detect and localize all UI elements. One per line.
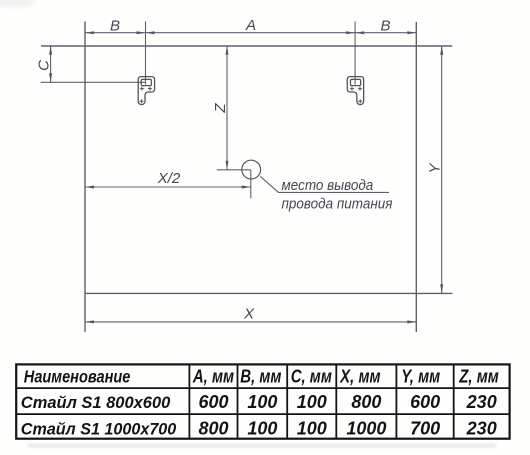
svg-text:100: 100 xyxy=(247,419,277,439)
svg-text:Z, мм: Z, мм xyxy=(458,366,498,387)
svg-text:провода питания: провода питания xyxy=(282,196,393,213)
wall bracket 1 xyxy=(138,77,154,105)
svg-text:1000: 1000 xyxy=(346,419,386,439)
mirror left edge xyxy=(84,21,86,332)
svg-text:A, мм: A, мм xyxy=(192,366,234,387)
svg-text:место вывода: место вывода xyxy=(282,177,374,194)
mirror bottom edge xyxy=(85,292,452,294)
svg-text:A: A xyxy=(245,17,256,34)
svg-text:C: C xyxy=(36,60,53,71)
svg-text:B: B xyxy=(110,18,120,35)
svg-text:800: 800 xyxy=(351,392,381,412)
bracket 2 centerline xyxy=(354,21,356,84)
svg-text:Наименование: Наименование xyxy=(24,367,131,387)
dimension line Z xyxy=(226,46,228,170)
arrows of dimension Y xyxy=(440,46,443,55)
bracket 2 screw marks xyxy=(350,87,362,104)
table outer border xyxy=(16,364,509,438)
svg-text:600: 600 xyxy=(410,392,440,412)
svg-text:B, мм: B, мм xyxy=(240,366,281,387)
hole centerline vertical xyxy=(250,170,252,199)
svg-text:Стайл S1 800x600: Стайл S1 800x600 xyxy=(21,393,171,412)
svg-text:X: X xyxy=(243,306,255,323)
dimension line C xyxy=(50,46,52,83)
arrows of dimension X xyxy=(85,320,94,323)
svg-text:Стайл S1 1000x700: Стайл S1 1000x700 xyxy=(21,419,177,438)
svg-text:Z: Z xyxy=(212,103,229,114)
dimension line Y xyxy=(441,46,443,294)
reference line C bottom xyxy=(41,81,146,83)
svg-text:C, мм: C, мм xyxy=(291,366,332,387)
dimension line X/2 xyxy=(85,186,251,188)
mirror top edge xyxy=(41,45,452,47)
arrows of dimension X/2 xyxy=(85,186,94,189)
power cord hole circle xyxy=(242,160,261,179)
arrows of dimension A xyxy=(146,31,155,34)
faint corner smudge xyxy=(0,0,36,7)
svg-text:X/2: X/2 xyxy=(157,170,181,187)
dimension line B A B xyxy=(85,32,416,34)
shadow under table xyxy=(28,444,496,448)
svg-text:100: 100 xyxy=(297,392,327,412)
table inner lines xyxy=(16,364,509,438)
leader line to callout xyxy=(260,176,389,192)
arrows of dimension B right xyxy=(355,31,364,34)
svg-text:Y: Y xyxy=(427,163,444,174)
bracket 1 centerline xyxy=(145,21,147,84)
svg-text:230: 230 xyxy=(466,419,497,439)
arrows of dimension B left xyxy=(49,31,443,323)
wall bracket 2 (mirrored) xyxy=(347,77,363,105)
arrows of dimension C xyxy=(49,46,52,55)
dimension line X xyxy=(85,321,416,323)
svg-text:230: 230 xyxy=(466,392,497,412)
svg-text:100: 100 xyxy=(247,392,277,412)
bracket 1 screw marks xyxy=(140,87,152,104)
svg-text:Y, мм: Y, мм xyxy=(401,366,440,387)
svg-text:800: 800 xyxy=(198,419,228,439)
svg-text:B: B xyxy=(380,18,390,35)
svg-text:X, мм: X, мм xyxy=(339,366,380,387)
arrows of dimension Z xyxy=(226,46,229,55)
mirror right edge xyxy=(415,22,417,332)
svg-text:600: 600 xyxy=(198,392,228,412)
reference line Z bottom xyxy=(217,169,251,171)
svg-text:100: 100 xyxy=(297,419,327,439)
svg-text:700: 700 xyxy=(410,419,440,439)
